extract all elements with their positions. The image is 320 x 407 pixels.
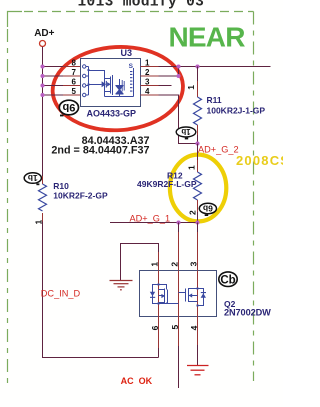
svg-text:2: 2 [188,210,198,215]
svg-text:AD+_G_1: AD+_G_1 [130,213,171,223]
svg-text:6: 6 [72,78,77,87]
U3 pin numbers right 1 2 3 4 [145,59,150,97]
wire U3 pin4 to AD+_G_2 [159,95,198,144]
svg-text:3: 3 [189,261,199,266]
wire Q2 pin4 to ground [197,317,199,346]
annotation circle 1b at R11 [176,127,196,139]
wire Q2 pin5 to AC OK [178,317,180,347]
svg-text:100KR2J-1-GP: 100KR2J-1-GP [207,106,266,116]
svg-text:9b: 9b [62,101,75,113]
svg-text:5: 5 [72,87,77,96]
wire DC_IN_D rail lower [43,222,159,358]
U3 internal mosfet drawing [86,67,134,97]
transistor Q2 body box [140,271,217,317]
yellow annotation ellipse around R12 [170,155,226,222]
resistor R10 [34,176,47,225]
svg-text:1: 1 [150,262,160,267]
svg-text:2: 2 [145,68,150,77]
power symbol AD+ [34,28,54,46]
svg-text:6b: 6b [203,204,213,214]
svg-text:1: 1 [34,220,44,225]
U3 pin numbers left 8 7 6 5 [72,59,77,97]
svg-text:NEAR: NEAR [169,22,246,53]
svg-text:2008CS: 2008CS [236,153,283,168]
svg-text:U3: U3 [121,48,133,58]
wire U3 pin3 stub end [159,85,172,87]
junction dots top net [176,64,199,78]
svg-text:AD+: AD+ [34,28,54,39]
U3 left fet diode and arrow [88,69,111,88]
wire Q2 pin2 drop [178,223,180,233]
svg-text:1b: 1b [181,127,190,136]
wire Q2 pin3 drop [197,223,199,233]
wire U3 pin 5 [43,94,64,96]
svg-text:3: 3 [145,78,150,87]
svg-text:1b: 1b [28,173,38,183]
Q2 right mosfet [179,288,204,306]
svg-text:4: 4 [145,87,150,96]
dashed selection border [8,12,254,386]
svg-text:AO4433-GP: AO4433-GP [87,109,137,119]
U3 right pin stubs [141,67,159,96]
wire Q2 pin6 stub [158,317,160,349]
svg-text:Cb: Cb [220,274,235,286]
U3 pin bubbles [83,65,86,97]
svg-text:2N7002DW: 2N7002DW [224,308,271,318]
svg-text:8: 8 [72,59,77,68]
title note text [78,0,205,10]
wire net AD+_G_1 [110,222,198,224]
wire AD+ rail left [42,47,44,176]
svg-text:1013 modify 03: 1013 modify 03 [78,0,205,10]
svg-text:AD+_G_2: AD+_G_2 [198,145,239,155]
svg-text:S: S [129,63,134,70]
svg-text:1: 1 [145,59,150,68]
svg-text:49K9R2F-L-GP: 49K9R2F-L-GP [137,179,197,189]
Q2 pin numbers bottom 6 5 4 [150,325,199,331]
transistor U3 body box [81,59,141,107]
wire U3 pin 8 [43,66,64,68]
wire U3 pin 7 [43,75,64,77]
svg-text:10KR2F-2-GP: 10KR2F-2-GP [53,191,108,201]
annotation circle 1b at R10 [24,173,41,186]
Q2 pin numbers top 1 2 3 [150,261,199,266]
wire U3 pin 6 [43,85,64,87]
svg-text:DC_IN_D: DC_IN_D [41,289,81,299]
svg-text:2: 2 [170,262,180,267]
annotation circle Cb at Q2 [219,272,237,287]
ground symbol upper [110,281,133,290]
svg-text:2nd = 84.04407.F37: 2nd = 84.04407.F37 [51,144,149,156]
red annotation ellipse around U3 [51,44,186,134]
ground symbol lower [187,366,209,375]
U3 right fet body diode [116,80,124,94]
annotation circle 6b at R12 [199,203,216,216]
U3 pin name S and pin name glyphs [129,63,134,92]
svg-text:R11: R11 [207,95,222,105]
wire net from U3 pin1 to right edge [159,66,271,68]
wire Q2 pin1 to ground [158,252,160,271]
svg-text:AC OK: AC OK [121,376,153,386]
Q2 internal pin columns [159,271,198,317]
Q2 left mosfet [153,285,179,304]
resistor R12 [187,144,202,223]
svg-text:1: 1 [186,85,196,90]
wire U3 pin2 riser [159,67,179,77]
resistor R11 [186,67,202,144]
junction dots on AD+ rail [40,64,44,97]
node AD+_G_2 [195,141,199,145]
svg-text:7: 7 [72,68,77,77]
svg-text:1: 1 [187,165,197,170]
annotation circle 9b at U3 [59,100,78,116]
part number note text [51,135,149,156]
